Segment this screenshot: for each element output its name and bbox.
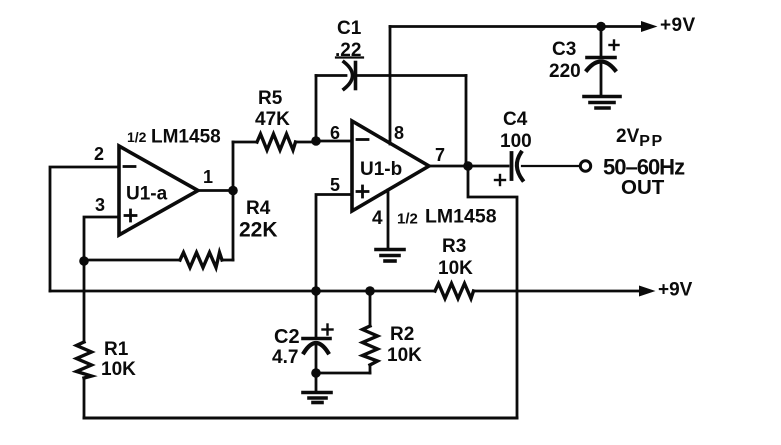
capacitor C3 bbox=[587, 27, 615, 95]
wire: C2 bottom to ground bbox=[315, 373, 318, 391]
node: U1-b output junction bbox=[463, 161, 473, 171]
wire: U1-a output bbox=[198, 189, 233, 192]
resistor R2 bbox=[363, 291, 378, 373]
svg-text:10K: 10K bbox=[438, 258, 473, 279]
op-amp U1-b bbox=[352, 121, 429, 211]
resistor R5 bbox=[233, 134, 316, 150]
node: bias rail / C2 junction bbox=[311, 286, 321, 296]
resistor R3 bbox=[435, 284, 474, 299]
svg-text:5: 5 bbox=[330, 175, 340, 195]
wire: feedback from output node down and right bbox=[468, 166, 517, 418]
svg-text:1/2: 1/2 bbox=[397, 211, 418, 228]
svg-text:+9V: +9V bbox=[658, 280, 693, 301]
svg-text:R5: R5 bbox=[258, 88, 283, 109]
capacitor C4 bbox=[468, 153, 581, 181]
node: U1-a output junction bbox=[228, 186, 238, 196]
op-amp U1-a bbox=[119, 146, 198, 235]
svg-text:1: 1 bbox=[203, 167, 213, 187]
svg-text:U1-a: U1-a bbox=[126, 184, 168, 205]
svg-text:100: 100 bbox=[500, 131, 532, 152]
ground C2 bbox=[303, 393, 331, 403]
ground C3 bbox=[584, 97, 620, 109]
wire: C1 to output node vertical bbox=[465, 76, 468, 167]
non-inverting input marker U1-a bbox=[125, 210, 136, 221]
+9V bottom arrowhead bbox=[639, 286, 656, 297]
svg-text:C3: C3 bbox=[552, 39, 576, 60]
svg-text:10K: 10K bbox=[387, 345, 422, 366]
svg-text:7: 7 bbox=[435, 145, 445, 165]
svg-text:22K: 22K bbox=[239, 219, 278, 242]
svg-text:C4: C4 bbox=[503, 109, 528, 130]
svg-text:LM1458: LM1458 bbox=[425, 206, 497, 228]
svg-text:3: 3 bbox=[95, 195, 105, 215]
svg-text:+9V: +9V bbox=[660, 15, 696, 36]
svg-text:R3: R3 bbox=[442, 236, 466, 257]
svg-text:R2: R2 bbox=[390, 324, 414, 345]
node: pin3 / R4 / R1 junction bbox=[79, 256, 89, 266]
node: bias rail / R2 junction bbox=[365, 286, 375, 296]
polarity + of C2 bbox=[323, 325, 333, 335]
svg-text:4: 4 bbox=[372, 208, 383, 229]
svg-text:R1: R1 bbox=[104, 339, 129, 360]
inverting input marker U1-a bbox=[124, 165, 135, 168]
wire: pin 6 bbox=[316, 140, 352, 143]
resistor R4 bbox=[84, 191, 233, 268]
wire: U1-b output bbox=[429, 165, 468, 168]
svg-text:10K: 10K bbox=[101, 359, 136, 380]
wire: output node up to R5 bbox=[232, 142, 235, 191]
+9V top arrowhead bbox=[641, 21, 658, 32]
wire: C1 feedback top right bbox=[358, 74, 466, 77]
node: pin6 / R5 / C1 junction bbox=[311, 136, 321, 146]
svg-text:C1: C1 bbox=[337, 18, 362, 39]
wire: pin 2 input bbox=[50, 167, 119, 291]
wire: pin 8 to +9V rail bbox=[389, 27, 392, 145]
svg-text:LM1458: LM1458 bbox=[151, 127, 221, 148]
node: C2 bottom junction bbox=[311, 368, 321, 378]
polarity + of C4 bbox=[495, 175, 505, 185]
wire: +9V top rail bbox=[390, 25, 645, 28]
wire: C1 feedback left vertical bbox=[315, 76, 318, 142]
wire: pin 4 to ground bbox=[387, 190, 390, 248]
polarity + of C3 bbox=[610, 41, 619, 50]
output terminal circle bbox=[580, 161, 590, 171]
svg-text:OUT: OUT bbox=[621, 176, 665, 199]
svg-text:U1-b: U1-b bbox=[360, 159, 402, 180]
resistor R1 bbox=[77, 261, 92, 418]
wire: pin 3 input bbox=[84, 217, 119, 261]
svg-text:2VPP: 2VPP bbox=[616, 126, 664, 150]
node: top rail / C3 junction bbox=[596, 22, 606, 32]
non-inverting input marker U1-b bbox=[357, 186, 368, 197]
inverting input marker U1-b bbox=[357, 138, 368, 141]
ground U1-b pin 4 bbox=[376, 250, 404, 262]
svg-text:8: 8 bbox=[394, 123, 404, 143]
wire: +9V bias rail left segment bbox=[50, 290, 435, 293]
svg-text:4.7: 4.7 bbox=[272, 347, 298, 368]
wire: +9V bias rail right segment bbox=[474, 290, 643, 293]
svg-text:R4: R4 bbox=[246, 198, 271, 219]
svg-text:6: 6 bbox=[330, 123, 340, 143]
svg-text:47K: 47K bbox=[255, 109, 290, 130]
wire: bottom feedback rail bbox=[84, 417, 517, 420]
svg-text:1/2: 1/2 bbox=[127, 129, 147, 145]
capacitor C2 bbox=[303, 291, 330, 373]
wire: C2 bottom to R2 bottom bbox=[316, 372, 370, 375]
underline of .22 bbox=[336, 56, 363, 58]
capacitor C1 bbox=[344, 62, 356, 89]
svg-text:C2: C2 bbox=[274, 326, 300, 348]
svg-text:2: 2 bbox=[94, 144, 104, 164]
wire: C1 feedback top left bbox=[316, 74, 346, 77]
wire: pin 5 bbox=[316, 195, 352, 292]
svg-text:220: 220 bbox=[549, 61, 581, 82]
